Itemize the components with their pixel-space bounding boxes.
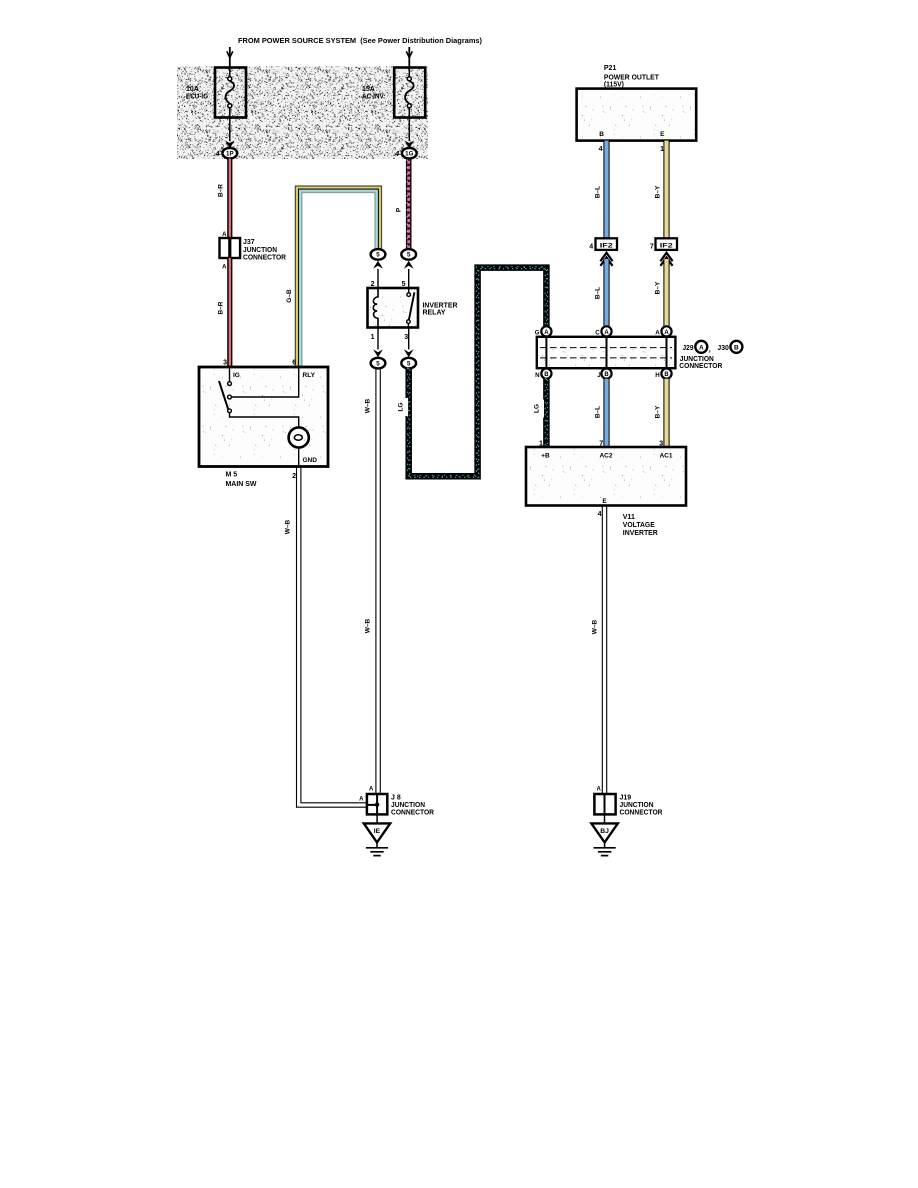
svg-text:B–Y: B–Y — [655, 405, 662, 418]
svg-text:E: E — [602, 498, 607, 505]
inverter relay box — [368, 288, 419, 328]
svg-text:C: C — [595, 330, 600, 337]
svg-text:IE: IE — [374, 828, 381, 835]
svg-text:JUNCTION: JUNCTION — [620, 802, 654, 809]
svg-text:B: B — [734, 344, 739, 351]
feed wire right from power source — [408, 47, 410, 68]
connector 5 below relay pin 1 — [377, 328, 379, 350]
fuse lead to connector 1G — [408, 118, 410, 142]
svg-text:CONNECTOR: CONNECTOR — [391, 810, 434, 817]
svg-text:W–B: W–B — [365, 618, 372, 633]
svg-text:ECU-IG: ECU-IG — [186, 94, 208, 101]
svg-text:IG: IG — [233, 372, 240, 379]
junction connector J19 — [594, 794, 615, 814]
svg-text:IF2: IF2 — [660, 243, 674, 250]
svg-text:4: 4 — [599, 146, 603, 153]
relay coil — [373, 288, 378, 328]
svg-text:P: P — [396, 207, 403, 212]
svg-text:J30: J30 — [717, 345, 729, 352]
svg-text:J37: J37 — [243, 239, 255, 246]
wire B-Y from IF2 to junction connector A(A) — [663, 259, 669, 326]
relay switch — [408, 288, 410, 293]
svg-text:INVERTER: INVERTER — [623, 530, 658, 537]
svg-text:1: 1 — [371, 334, 375, 341]
wire B-L from IF2 to junction connector C(A) — [603, 259, 609, 326]
svg-text:IF2: IF2 — [600, 243, 614, 250]
fuse lead to connector 1P — [229, 118, 231, 142]
svg-text:B–L: B–L — [595, 406, 602, 418]
svg-text:B: B — [604, 372, 609, 378]
svg-text:CONNECTOR: CONNECTOR — [679, 363, 722, 370]
svg-text:GND: GND — [303, 457, 318, 464]
svg-text:3: 3 — [223, 360, 227, 367]
terminal N(B) — [541, 369, 551, 379]
terminal A(A) — [661, 326, 671, 336]
svg-text:6: 6 — [292, 360, 296, 367]
svg-text:J29: J29 — [683, 345, 694, 352]
svg-text:5: 5 — [407, 252, 411, 259]
fuse 10A ECU-IG — [215, 68, 246, 118]
svg-text:LG: LG — [534, 404, 541, 413]
wires through junction connector — [545, 337, 547, 368]
svg-text:10A: 10A — [186, 86, 199, 93]
connector 5 below relay pin 3 — [408, 328, 410, 350]
svg-text:A: A — [596, 787, 601, 793]
svg-text:4: 4 — [589, 243, 593, 250]
wire B-L from P21 B to IF2 — [603, 141, 609, 239]
terminal J(B) — [601, 369, 611, 379]
connector 4 1P — [222, 148, 237, 159]
indicator lamp in main switch — [289, 427, 309, 447]
svg-text:LG: LG — [398, 402, 405, 411]
connector 4 1G — [402, 148, 417, 159]
voltage inverter V11 box — [526, 447, 686, 506]
svg-text:1G: 1G — [405, 151, 413, 158]
svg-text:VOLTAGE: VOLTAGE — [623, 522, 655, 529]
svg-text:N: N — [535, 372, 540, 379]
svg-text:RLY: RLY — [303, 372, 316, 379]
svg-text:+B: +B — [541, 453, 550, 460]
svg-text:JUNCTION: JUNCTION — [243, 247, 277, 254]
svg-text:JUNCTION: JUNCTION — [680, 356, 714, 363]
svg-text:5: 5 — [402, 281, 406, 288]
svg-text:BJ: BJ — [600, 828, 609, 835]
svg-text:2: 2 — [371, 281, 375, 288]
connector 4 IF2 — [596, 238, 618, 250]
svg-text:B–R: B–R — [218, 184, 225, 197]
svg-text:3: 3 — [404, 334, 408, 341]
wire W-B from main switch GND to J8 — [297, 467, 367, 808]
svg-text:5: 5 — [376, 252, 380, 259]
svg-text:A: A — [222, 265, 227, 271]
svg-text:A: A — [699, 344, 704, 351]
wire B-R upper segment — [227, 159, 232, 239]
svg-text:A: A — [604, 330, 609, 336]
terminal C(A) — [601, 326, 611, 336]
svg-text:INVERTER: INVERTER — [423, 302, 458, 309]
svg-text:B: B — [599, 131, 604, 138]
svg-text:B: B — [544, 372, 549, 378]
svg-text:AC INV.: AC INV. — [362, 94, 385, 101]
svg-text:P21: P21 — [604, 65, 617, 72]
svg-text:4: 4 — [598, 511, 602, 518]
connector 5 above relay pin 5 — [408, 269, 410, 288]
svg-text:A: A — [655, 330, 660, 337]
svg-text:G–B: G–B — [286, 289, 293, 303]
wire G-B from main switch RLY to inverter relay pin 2 — [296, 186, 382, 367]
terminal G(A) — [541, 326, 551, 336]
svg-text:1P: 1P — [226, 151, 234, 158]
svg-text:4: 4 — [394, 151, 399, 158]
svg-text:B–L: B–L — [595, 186, 602, 198]
svg-text:MAIN SW: MAIN SW — [226, 481, 257, 488]
svg-text:CONNECTOR: CONNECTOR — [243, 254, 286, 261]
svg-text:AC2: AC2 — [599, 453, 612, 460]
power outlet P21 box — [577, 89, 697, 141]
connector 5 above relay pin 2 — [377, 269, 379, 288]
junction connector J8 — [367, 794, 387, 814]
svg-text:V11: V11 — [623, 514, 635, 521]
svg-text:J: J — [597, 372, 601, 379]
svg-text:A: A — [359, 797, 364, 803]
fuse 15A AC INV — [394, 68, 425, 118]
wire B-R lower segment — [227, 258, 232, 367]
svg-text:RELAY: RELAY — [423, 310, 446, 317]
main switch M5 box — [199, 367, 328, 467]
svg-text:B–Y: B–Y — [655, 281, 662, 294]
svg-text:M 5: M 5 — [226, 472, 238, 479]
svg-text:15A: 15A — [362, 86, 375, 93]
wire B-Y from P21 E to IF2 — [663, 141, 669, 239]
wire W-B from relay pin 1 to J8 — [375, 368, 377, 794]
wire LG from N(B) to V11 pin 1 — [543, 379, 550, 447]
wire B-Y from H(B) to V11 pin 3 — [663, 379, 669, 447]
svg-text:W–B: W–B — [285, 519, 292, 534]
svg-text:B–Y: B–Y — [655, 185, 662, 198]
svg-text:AC1: AC1 — [659, 453, 672, 460]
wire LG from relay pin 3 to junction connector G(A) — [409, 268, 547, 477]
connector 7 IF2 — [656, 238, 678, 250]
svg-text:W–B: W–B — [365, 398, 372, 413]
stipple band — [177, 67, 428, 160]
svg-text:A: A — [544, 330, 549, 336]
svg-text:W–B: W–B — [592, 619, 599, 634]
ground IE — [376, 814, 378, 823]
svg-text:4: 4 — [215, 151, 220, 158]
svg-text:A: A — [664, 330, 669, 336]
svg-text:B–L: B–L — [595, 287, 602, 299]
junction connector J29/J30 box — [537, 337, 676, 368]
wire P from 1G to inverter relay pin 5 — [406, 159, 412, 250]
junction connector J37 — [220, 238, 241, 258]
svg-text:5: 5 — [407, 360, 411, 367]
svg-text:E: E — [660, 131, 665, 138]
wire B-L from J(B) to V11 pin 7 — [603, 379, 609, 447]
svg-text:JUNCTION: JUNCTION — [391, 802, 425, 809]
wire W-B from V11 E to J19 — [601, 506, 603, 795]
svg-text:7: 7 — [650, 243, 654, 250]
terminal H(B) — [661, 369, 671, 379]
svg-text:G: G — [535, 330, 540, 337]
svg-text:FROM POWER SOURCE SYSTEM (See: FROM POWER SOURCE SYSTEM (See Power Dist… — [238, 38, 482, 45]
svg-text:A: A — [369, 787, 374, 793]
svg-text:,: , — [709, 347, 711, 354]
svg-text:CONNECTOR: CONNECTOR — [620, 810, 663, 817]
ground BJ — [604, 814, 606, 823]
svg-text:B: B — [664, 372, 669, 378]
feed wire left from power source — [229, 47, 231, 68]
svg-text:B–R: B–R — [218, 301, 225, 314]
svg-text:2: 2 — [292, 473, 296, 480]
svg-text:J 8: J 8 — [391, 795, 401, 802]
svg-text:5: 5 — [376, 360, 380, 367]
svg-text:H: H — [655, 372, 660, 379]
svg-text:POWER OUTLET: POWER OUTLET — [604, 74, 660, 81]
svg-text:J19: J19 — [620, 795, 632, 802]
